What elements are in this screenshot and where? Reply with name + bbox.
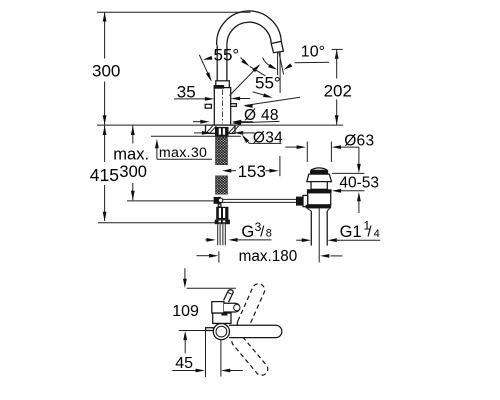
handle (solid) [229,325,282,337]
body box (side) [213,313,231,323]
label max.30 [155,139,159,148]
aerator [271,41,283,52]
dimension max.180 [197,255,212,257]
lever cylinder [224,303,240,312]
svg-text:45: 45 [175,355,193,372]
swivel joint outer circle [213,324,229,340]
svg-text:300: 300 [92,62,120,81]
dimension 415 [104,126,106,162]
drain side port [303,195,308,206]
bottom reference line [98,222,229,224]
top line [187,287,236,289]
top extension line [97,11,251,13]
label G3/8 [205,239,208,241]
cartridge box [212,302,224,313]
svg-text:8: 8 [266,228,272,240]
svg-text:40-53: 40-53 [339,174,379,191]
drain stopper cap (dark) [310,170,328,174]
faucet body [214,88,230,126]
drain seal band (dark) [307,189,332,193]
left protrusion (pop-up knob) [205,104,211,108]
supply tubes [217,224,219,245]
riser pipe [216,45,218,81]
dimension 202 [332,48,343,50]
svg-text:153: 153 [238,162,266,181]
deck arrows Ø48 [193,121,202,123]
deck arrows Ø34 [194,132,204,134]
label Ø48 [233,121,279,123]
drain taper [307,208,329,211]
svg-text:Ø34: Ø34 [253,130,283,147]
drain flange [307,174,332,182]
svg-text:300: 300 [119,163,147,181]
dimension 109 [184,268,186,280]
escutcheon flange [206,125,236,133]
lower nut block [216,207,228,220]
lower nut wide band [215,220,230,225]
dimension max.300 [132,126,134,144]
label 55deg left [199,55,211,81]
dimension 153 [222,169,231,173]
svg-text:max.30: max.30 [159,145,207,161]
drain centre extension line [318,209,320,263]
threaded shank lower [216,176,228,194]
dashed handle position lower [229,332,270,378]
swivel joint inner circle [216,326,227,337]
deck line [97,124,343,126]
drain stopper dome [311,168,327,170]
svg-text:max.: max. [113,146,149,164]
deck bottom line [151,135,241,137]
shank stem [218,204,221,207]
svg-text:415: 415 [90,165,119,185]
small leader [253,92,270,97]
svg-text:4: 4 [374,228,380,240]
label G1 1/4 [296,239,303,241]
spout outer arc [217,11,282,45]
dashed handle position upper [235,282,266,332]
shank through deck [215,127,229,136]
lever (edge-on, dark) [214,85,225,89]
svg-text:max.180: max.180 [239,248,298,265]
pop-up rod (double line) [220,198,297,200]
dimension 40-53 [358,147,360,166]
svg-text:10°: 10° [301,44,325,61]
flange hatching [206,126,238,133]
dimension 300 [104,12,106,58]
drain body [308,193,331,205]
spout stub [224,290,234,302]
collar nut [216,81,230,88]
rod connector block [214,197,221,204]
svg-text:G: G [241,223,254,241]
water stream reference lines (10 deg) [277,52,279,75]
dark notch [221,313,227,316]
svg-text:55°: 55° [255,73,281,92]
extension lines 45 [205,331,207,378]
svg-text:Ø 48: Ø 48 [244,107,279,124]
lever end circle [234,304,240,310]
svg-text:109: 109 [172,303,199,320]
right protrusion (handle hub) [231,104,237,107]
svg-text:55°: 55° [214,46,240,65]
svg-text:202: 202 [324,81,352,100]
threaded shank upper [216,137,228,165]
pop-up rod extension line [127,200,214,202]
body centerline [222,90,224,124]
svg-text:G1: G1 [340,223,362,241]
drain tailpipe [310,211,312,246]
mid extension line [179,330,212,332]
pop-up rod knob [206,328,214,331]
leader to spout (55 deg) [230,65,259,95]
drain neck [311,182,327,190]
drain body bottom band [306,205,332,209]
swivel arc at spout tip [263,58,272,67]
drain side knob (dark) [296,197,303,206]
rod ball joint [218,198,222,202]
spout inner arc [227,22,271,45]
